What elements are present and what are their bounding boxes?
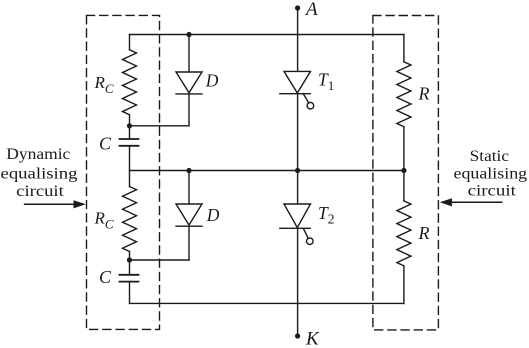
svg-text:T1: T1 — [318, 69, 334, 93]
svg-text:D: D — [205, 70, 219, 90]
wire: junction RC1/C1 to diode D1 — [130, 125, 190, 127]
svg-text:T2: T2 — [318, 203, 334, 227]
svg-text:C: C — [99, 133, 112, 153]
wire: RC2 branch stubs — [129, 171, 131, 304]
svg-text:R: R — [418, 84, 430, 104]
svg-text:A: A — [304, 0, 318, 20]
wire: anode lead from node A — [297, 8, 299, 71]
thyristor T2 — [280, 204, 311, 228]
svg-text:equalising: equalising — [454, 165, 528, 182]
svg-text:circuit: circuit — [468, 182, 517, 199]
resistor R2 — [397, 201, 411, 266]
junction dot: middle rail / main line — [295, 168, 300, 173]
svg-text:circuit: circuit — [16, 183, 64, 200]
junction dot: middle rail / R branch — [401, 168, 406, 173]
wire: RC1 branch stubs — [129, 35, 131, 171]
wire: junction RC2/C2 to diode D2 — [130, 259, 190, 261]
wire: diode D1 branch stubs — [188, 35, 190, 126]
wire: diode D2 branch stubs — [188, 171, 190, 261]
svg-text:RC: RC — [94, 73, 114, 96]
wire: T1 cathode to middle rail — [297, 94, 299, 204]
resistor RC1 — [123, 50, 137, 115]
wire: top rail — [130, 34, 404, 36]
wire: T1 gate lead — [303, 94, 308, 103]
svg-text:R: R — [418, 223, 430, 243]
diode D2 — [176, 204, 202, 226]
svg-text:Static: Static — [470, 148, 509, 165]
wire: R1 branch stubs — [403, 35, 405, 171]
capacitor C1 — [120, 139, 139, 146]
wire: bottom rail — [130, 302, 404, 304]
junction dot: middle rail / D2 — [186, 168, 191, 173]
wire: R2 branch stubs — [403, 171, 405, 304]
dashed box: dynamic equalising circuit — [87, 15, 160, 329]
resistor RC2 — [123, 186, 137, 251]
capacitor C2 — [120, 275, 139, 282]
thyristor T1 — [280, 71, 311, 93]
svg-text:Dynamic: Dynamic — [6, 146, 70, 163]
svg-text:RC: RC — [94, 209, 114, 232]
svg-text:D: D — [206, 205, 220, 225]
junction dot: top rail / D1 — [186, 32, 191, 37]
resistor R1 — [397, 62, 411, 127]
wire: T2 cathode to node K — [297, 228, 299, 336]
svg-text:K: K — [305, 328, 320, 348]
wire: middle rail — [130, 170, 404, 172]
node A terminal dot — [295, 5, 300, 10]
diode D1 — [176, 72, 202, 94]
wire: T2 gate lead — [303, 228, 308, 238]
junction dot: RC1 / C1 — [127, 123, 132, 128]
arrow: dynamic equalising circuit pointer — [25, 203, 75, 205]
T1 gate terminal circle — [307, 102, 314, 109]
junction dot: RC2 / C2 — [127, 257, 132, 262]
svg-text:C: C — [99, 267, 112, 287]
T2 gate terminal circle — [307, 238, 314, 245]
arrow: static equalising circuit pointer — [451, 201, 502, 203]
svg-text:equalising: equalising — [1, 165, 78, 182]
dashed box: static equalising circuit — [373, 16, 439, 330]
node K terminal dot — [295, 333, 300, 338]
